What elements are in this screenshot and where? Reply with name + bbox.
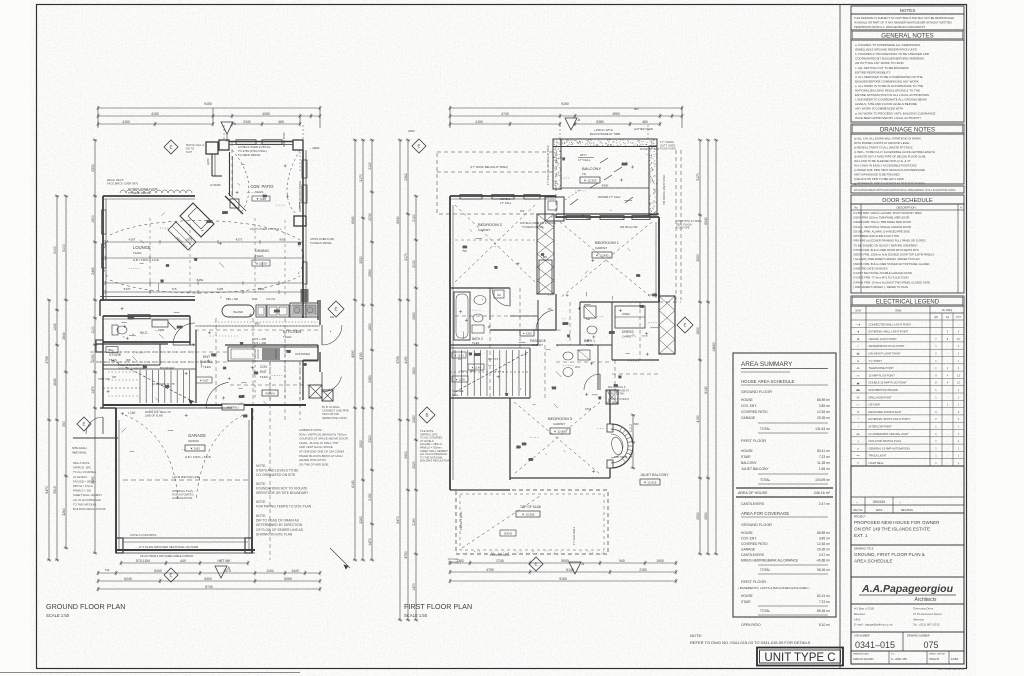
- svg-text:8740: 8740: [205, 585, 213, 589]
- electrical legend: [851, 296, 964, 466]
- svg-text:D7/D10 FRM. 813mm MER DOOR: D7/D10 FRM. 813mm MER DOOR WITH SEATS MT…: [854, 248, 919, 252]
- svg-text:4390: 4390: [351, 350, 355, 358]
- svg-text:◔: ◔: [857, 425, 859, 429]
- svg-text:2120: 2120: [412, 214, 416, 222]
- svg-text:GARAGE: GARAGE: [741, 548, 756, 552]
- clutter marks first floor: [459, 154, 658, 472]
- svg-text:BALUSTRADE AT TIMB.: BALUSTRADE AT TIMB.: [590, 132, 621, 136]
- svg-text:FLOW OVER: FLOW OVER: [660, 147, 676, 151]
- svg-text:CANTILEVERS: CANTILEVERS: [741, 553, 765, 557]
- svg-text:83.41 m²: 83.41 m²: [817, 449, 831, 453]
- svg-text:W 10.00: W 10.00: [255, 262, 267, 266]
- svg-text:TOT: TOT: [956, 316, 961, 319]
- svg-text:DBL + 6M: DBL + 6M: [226, 297, 239, 301]
- svg-text:Tel : (011) 867-2015: Tel : (011) 867-2015: [913, 623, 940, 627]
- kitchen island counter: [222, 305, 254, 317]
- svg-text:REFER TO DWG NO. 0341-015-03 T: REFER TO DWG NO. 0341-015-03 TO 0341-015…: [690, 640, 811, 645]
- general notes body: [851, 40, 964, 122]
- svg-text:HBT WK: HBT WK: [217, 559, 231, 563]
- svg-text:DRAINAGE NOTES: DRAINAGE NOTES: [880, 127, 935, 134]
- bottom row: [888, 651, 890, 664]
- svg-text:2330: 2330: [91, 164, 95, 172]
- svg-text:HOUSE: HOUSE: [741, 531, 754, 535]
- svg-text:1090: 1090: [91, 354, 95, 362]
- hall linen: [615, 306, 645, 328]
- svg-text:6240: 6240: [124, 577, 132, 581]
- svg-text:4740: 4740: [501, 112, 509, 116]
- right small rooms + door: [317, 345, 319, 360]
- svg-text:1470: 1470: [91, 386, 95, 394]
- svg-text:14660: 14660: [712, 342, 716, 352]
- svg-text:CARPET: CARPET: [595, 246, 607, 250]
- svg-text:940: 940: [619, 559, 625, 563]
- open slab dashed region: [456, 490, 608, 554]
- svg-text:LINTELS OVER BRKS: LINTELS OVER BRKS: [130, 533, 157, 537]
- svg-text:FACE BRICK OVER 9970: FACE BRICK OVER 9970: [107, 181, 139, 185]
- svg-text:SH: SH: [497, 293, 501, 297]
- svg-text:DOUBLE 15 AMP PLUG POINT: DOUBLE 15 AMP PLUG POINT: [869, 381, 908, 385]
- svg-text:1st: 1st: [946, 316, 950, 319]
- hatched pier near juliet: [606, 390, 618, 404]
- svg-text:1215: 1215: [622, 163, 628, 166]
- hatched threshold: [309, 385, 322, 398]
- drawing number row: [902, 632, 904, 651]
- svg-text:# 5 Bay v.1318: # 5 Bay v.1318: [854, 607, 874, 611]
- svg-text:4WD WALL: 4WD WALL: [72, 451, 87, 455]
- door from hall to wc zone: [173, 344, 195, 346]
- svg-text:GUTTER OVER: GUTTER OVER: [634, 127, 653, 131]
- first floor plan: [408, 102, 702, 490]
- svg-text:UNITS OVER # 2745 R.L.: UNITS OVER # 2745 R.L.: [250, 227, 283, 231]
- svg-text:G. +2661 350: G. +2661 350: [891, 657, 907, 661]
- svg-text:1900: 1900: [91, 215, 95, 223]
- svg-text:6540: 6540: [704, 217, 708, 225]
- svg-text:1382: 1382: [456, 559, 464, 563]
- svg-text:⦿: ⦿: [857, 395, 860, 399]
- svg-text:DG: DG: [143, 366, 147, 369]
- svg-text:1900: 1900: [656, 559, 664, 563]
- svg-text:SUN-D: SUN-D: [504, 532, 512, 536]
- svg-text:MONTHLY: MONTHLY: [227, 407, 239, 410]
- svg-text:TO DECK DETAIL: TO DECK DETAIL: [238, 153, 261, 157]
- svg-text:745: 745: [211, 354, 216, 357]
- svg-text:4150: 4150: [475, 120, 483, 124]
- svg-text:No: No: [854, 206, 858, 210]
- svg-text:FOUNDATIONS NOT TO VIOLATE: FOUNDATIONS NOT TO VIOLATE: [256, 487, 308, 491]
- svg-text:TILES: TILES: [260, 375, 268, 379]
- svg-text:P.C.: P.C.: [891, 654, 895, 656]
- svg-text:5470: 5470: [396, 516, 400, 524]
- stairs first floor: [450, 347, 530, 349]
- svg-text:DRILL/HOB POINT: DRILL/HOB POINT: [869, 395, 893, 399]
- svg-text:APPROX. DPC: APPROX. DPC: [73, 466, 91, 470]
- svg-text:600: 600: [634, 422, 639, 426]
- svg-text:JULIET BALCONY: JULIET BALCONY: [640, 473, 669, 477]
- svg-text:g. NO WORK TO PROCEED UNTIL BU: g. NO WORK TO PROCEED UNTIL BUILDING CLE…: [855, 111, 935, 115]
- wc room: [103, 315, 190, 317]
- svg-text:A.A.Papageorgiou: A.A.Papageorgiou: [861, 583, 954, 595]
- svg-text:d. ALL SERVICES TO BE COORDINA: d. ALL SERVICES TO BE COORDINATED ON THE: [855, 75, 923, 79]
- svg-text:TOTAL: TOTAL: [760, 609, 770, 613]
- svg-text:745: 745: [286, 351, 291, 354]
- garage door dashes: [125, 415, 178, 500]
- svg-text:ADM AS SHOWN: ADM AS SHOWN: [853, 657, 874, 661]
- GENERAL NOTES header: [851, 30, 964, 40]
- right dimension chains: [354, 140, 356, 560]
- svg-text:745 OVERFLOW AT SPEC: 745 OVERFLOW AT SPEC: [663, 175, 666, 205]
- svg-text:2930: 2930: [696, 512, 700, 520]
- svg-text:BEDROOM 1: BEDROOM 1: [595, 240, 620, 245]
- svg-text:TILES: TILES: [472, 341, 479, 345]
- svg-text:GENERAL 15 AMP AUTOMATION: GENERAL 15 AMP AUTOMATION: [869, 446, 910, 450]
- svg-text:16 RISERS @ 175: 16 RISERS @ 175: [152, 382, 175, 386]
- svg-text:2360: 2360: [412, 415, 416, 423]
- svg-text:UP: UP: [112, 375, 116, 379]
- svg-text:COORDINATED BY BUILDER BEFORE: COORDINATED BY BUILDER BEFORE ORDERING: [855, 57, 925, 61]
- svg-text:1215: 1215: [475, 353, 481, 356]
- svg-text:TO DECK DETAIL: TO DECK DETAIL: [128, 191, 151, 195]
- svg-text:D5 DBL./FRM. ALUMIN. D-HING: D5 DBL./FRM. ALUMIN. D-HINGED PRE SIDE: [854, 229, 911, 233]
- svg-text:2520: 2520: [412, 461, 416, 469]
- svg-text:—●: —●: [856, 322, 861, 326]
- svg-text:TILES: TILES: [133, 251, 141, 255]
- ceiling dashes: [110, 221, 300, 240]
- svg-text:2930: 2930: [704, 512, 708, 520]
- svg-text:TOTAL: TOTAL: [760, 427, 770, 431]
- svg-text:GR: GR: [934, 316, 938, 319]
- svg-text:1830: 1830: [368, 323, 372, 331]
- svg-text:CONNECT LINE PIPE: CONNECT LINE PIPE: [322, 409, 349, 413]
- svg-text:EXT. 1: EXT. 1: [854, 533, 868, 538]
- svg-text:2030: 2030: [274, 310, 280, 313]
- svg-text:2030: 2030: [222, 212, 228, 215]
- svg-text:3530: 3530: [696, 254, 700, 262]
- svg-text:1440: 1440: [291, 569, 299, 573]
- svg-text:• 140: • 140: [128, 411, 136, 415]
- svg-text:5100: 5100: [53, 246, 57, 254]
- svg-text:2362: 2362: [404, 173, 408, 181]
- svg-text:PASSAGE: PASSAGE: [530, 339, 547, 343]
- svg-text:2030 1170 JAMB 860: 2030 1170 JAMB 860: [118, 366, 143, 370]
- svg-text:← 17°L PLAIN GROOVED SECTIO: ← 17°L PLAIN GROOVED SECTIONAL O/H G/DR: [135, 545, 198, 549]
- svg-text:TO DECK DETAIL: TO DECK DETAIL: [310, 241, 332, 245]
- svg-text:SITE HIGH: SITE HIGH: [72, 446, 86, 450]
- svg-text:3170: 3170: [359, 174, 363, 182]
- svg-text:H.B = 13971 + 8 A.B.: H.B = 13971 + 8 A.B.: [185, 455, 212, 459]
- svg-text:EXTERNAL WALL LIGHT POINT: EXTERNAL WALL LIGHT POINT: [869, 330, 909, 334]
- svg-text:D-FAST SECTIONAL DOUBLE GA: D-FAST SECTIONAL DOUBLE GARAGE DOOR: [854, 271, 912, 275]
- garage bottom door line: [123, 537, 248, 539]
- svg-text:460: 460: [642, 120, 648, 124]
- svg-text:DG: DG: [330, 315, 334, 319]
- svg-text:17° FALL: 17° FALL: [500, 201, 512, 205]
- svg-text:▼ 9.87: ▼ 9.87: [200, 379, 209, 383]
- svg-text:1.56 m²: 1.56 m²: [819, 467, 831, 471]
- roof overhang dashed left of balcony: [437, 152, 556, 214]
- svg-text:MINUS HERRINGBANK ALLOWANCE: MINUS HERRINGBANK ALLOWANCE: [741, 559, 799, 563]
- svg-text:2190: 2190: [639, 568, 647, 572]
- internal dim line y242: [105, 241, 303, 243]
- svg-text:131.63 m²: 131.63 m²: [815, 427, 831, 431]
- svg-text:E: E: [169, 145, 172, 150]
- svg-text:BUILDING REGULATIONS: BUILDING REGULATIONS: [73, 507, 106, 511]
- unit type c box: [757, 648, 843, 666]
- svg-text:GARAGE DOOR: GARAGE DOOR: [172, 496, 192, 500]
- svg-text:D-PACK FRM. 15.4mm ALUSHUT: D-PACK FRM. 15.4mm ALUSHUT TWO PANEL GLA…: [854, 280, 931, 284]
- svg-text:246.16 m²: 246.16 m²: [814, 491, 831, 495]
- svg-text:11.28 m²: 11.28 m²: [817, 461, 831, 465]
- landing labels: [452, 352, 466, 358]
- balcony: [553, 139, 657, 147]
- svg-text:NATIONAL BUILDING REGULATIONS: NATIONAL BUILDING REGULATIONS & TO THE: [855, 89, 920, 93]
- svg-text:SPARE PIPE CONN.: SPARE PIPE CONN.: [322, 416, 347, 420]
- svg-text:Bloubert: Bloubert: [854, 612, 865, 616]
- svg-text:15 AMP PLUG POINT: 15 AMP PLUG POINT: [869, 373, 896, 377]
- svg-text:[ GLAZED ] PARLIAMENT HINGES: [ GLAZED ] PARLIAMENT HINGES ] REFER TO …: [854, 257, 920, 261]
- svg-text:AT LEVELS: AT LEVELS: [73, 475, 87, 479]
- svg-text:SIGN ON TAP: SIGN ON TAP: [322, 412, 339, 416]
- svg-text:CARPET: CARPET: [532, 343, 543, 347]
- svg-text:SH: SH: [586, 317, 590, 321]
- svg-text:HOUSE: HOUSE: [741, 449, 754, 453]
- svg-text:RECESSED DOWN LIGHT: RECESSED DOWN LIGHT: [869, 410, 902, 414]
- svg-text:ON THE OTHER SIDE.: ON THE OTHER SIDE.: [299, 462, 329, 466]
- svg-text:2160: 2160: [158, 328, 165, 332]
- svg-text:AREA SCHEDULE: AREA SCHEDULE: [854, 558, 893, 563]
- svg-text:2640: 2640: [53, 378, 57, 386]
- svg-text:TO ALL COURSES: TO ALL COURSES: [73, 470, 96, 474]
- svg-text:8450: 8450: [197, 278, 204, 282]
- svg-text:GRANO: GRANO: [188, 439, 200, 443]
- svg-text:3.85 m²: 3.85 m²: [819, 404, 831, 408]
- right hatched pier: [659, 296, 675, 354]
- svg-text:860: 860: [165, 385, 170, 388]
- svg-text:▼ 11.95: ▼ 11.95: [455, 379, 465, 382]
- svg-text:(17° ROOF BELOW AT SPEC): (17° ROOF BELOW AT SPEC): [470, 165, 508, 169]
- svg-text:7150 745: 7150 745: [98, 377, 110, 381]
- svg-text:1215: 1215: [239, 395, 245, 398]
- svg-text:DRESS: DRESS: [622, 330, 634, 334]
- svg-text:3530: 3530: [359, 256, 363, 264]
- svg-text:SUIT: SUIT: [186, 150, 192, 154]
- svg-text:ANTI-SIPHONAGE IS BE FINISH: ANTI-SIPHONAGE IS BE FINISHED: [854, 173, 900, 177]
- svg-text:NOTE:: NOTE:: [256, 514, 266, 518]
- svg-text:TOP SPLIT: TOP SPLIT: [614, 455, 628, 459]
- svg-text:ENTIRE SATISFACTION OF ALL LOC: ENTIRE SATISFACTION OF ALL LOCAL AUTHORI…: [855, 93, 929, 97]
- svg-text:4530: 4530: [602, 184, 609, 188]
- marker E lounge top: [164, 140, 178, 154]
- svg-text:STAIR: STAIR: [741, 455, 751, 459]
- lounge south wall: [100, 299, 195, 301]
- svg-text:2560: 2560: [368, 269, 372, 277]
- svg-text:D2/D4 FRM. 813mm TMB PANEL: D2/D4 FRM. 813mm TMB PANEL MER DOOR: [854, 216, 910, 220]
- svg-text:B: B: [425, 413, 428, 418]
- svg-text:745: 745: [640, 305, 645, 308]
- svg-text:COV. ENT.: COV. ENT.: [741, 537, 757, 541]
- svg-text:PANELS = 300: PANELS = 300: [73, 489, 91, 493]
- svg-text:12.54 m²: 12.54 m²: [817, 410, 831, 414]
- svg-text:CO-ORDINATED ON SITE.: CO-ORDINATED ON SITE.: [256, 473, 296, 477]
- svg-text:b. FINISHES & THICKNESSING TO: b. FINISHES & THICKNESSING TO BE CHECKED…: [855, 52, 929, 56]
- svg-text:4190: 4190: [359, 352, 363, 360]
- svg-text:1470: 1470: [368, 538, 372, 546]
- store room: [96, 343, 168, 345]
- svg-text:NOTE:: NOTE:: [256, 500, 266, 504]
- svg-text:715: 715: [171, 287, 176, 291]
- svg-text:ANY WORK IS COMMENCED WITH: ANY WORK IS COMMENCED WITH: [855, 107, 903, 111]
- svg-text:5170: 5170: [124, 287, 131, 291]
- svg-text:GARAGE: GARAGE: [741, 416, 756, 420]
- svg-text:2190: 2190: [412, 518, 416, 526]
- bottom dim chains ground: [121, 562, 248, 564]
- svg-text:NOTES: NOTES: [900, 8, 916, 13]
- svg-text:5400: 5400: [204, 577, 212, 581]
- svg-text:89.26 m²: 89.26 m²: [817, 609, 831, 613]
- cov patio walls: [219, 140, 229, 150]
- bath1 + dress: [580, 301, 659, 303]
- svg-text:FA/BA: FA/BA: [951, 657, 959, 661]
- svg-text:6540: 6540: [351, 216, 355, 224]
- svg-text:c) 50Ø + TO BE FULLY ACCESSIBL: c) 50Ø + TO BE FULLY ACCESSIBLE ALONG EN…: [854, 150, 935, 154]
- svg-text:COV. PATIO: COV. PATIO: [251, 184, 275, 189]
- svg-text:LAY-B 2ND FLR LINE: LAY-B 2ND FLR LINE: [172, 475, 199, 479]
- svg-text:DRAWN/SCALE: DRAWN/SCALE: [853, 653, 870, 656]
- svg-text:Architects: Architects: [914, 597, 937, 603]
- svg-text:EXTERNAL SPOTS LIGHT POINT: EXTERNAL SPOTS LIGHT POINT: [869, 417, 911, 421]
- left outer wall lower: [99, 300, 101, 316]
- column spine lines: [839, 5, 841, 669]
- first floor lower half: [396, 139, 718, 622]
- drainage notes body: [851, 134, 964, 184]
- svg-text:2520: 2520: [368, 435, 372, 443]
- svg-text:D/W: D/W: [252, 297, 258, 301]
- svg-text:29.35 m²: 29.35 m²: [817, 416, 831, 420]
- svg-text:650: 650: [255, 322, 260, 326]
- svg-text:FIRST FLOOR PLAN: FIRST FLOOR PLAN: [404, 602, 472, 611]
- svg-text:D9/D61 FRM. 813mm MER STAK: D9/D61 FRM. 813mm MER STAKED GR TOP PANE…: [854, 262, 930, 266]
- svg-text:1215: 1215: [609, 332, 615, 335]
- svg-text:BEL: BEL: [109, 348, 114, 352]
- svg-text:STAIR: STAIR: [741, 600, 751, 604]
- svg-text:29.35 m²: 29.35 m²: [817, 548, 831, 552]
- svg-text:D6/TIMBER HOR-SLIDE-FOLD TY: D6/TIMBER HOR-SLIDE-FOLD TYPE: [854, 234, 900, 238]
- svg-text:2560: 2560: [412, 312, 416, 320]
- DOOR SCHEDULE: [851, 195, 964, 204]
- svg-text:Glenvista Drive: Glenvista Drive: [913, 607, 934, 611]
- long dashed leader lines first: [489, 288, 491, 400]
- svg-text:f) RE-ROUTE PIPE TO BELOW: f) RE-ROUTE PIPE TO BELOW 2 GRID: [854, 177, 904, 181]
- svg-text:TO BE SANDED ON QUALITY BEFORE: TO BE SANDED ON QUALITY BEFORE ORDERING: [854, 243, 918, 247]
- svg-text:ISLAND: ISLAND: [233, 310, 243, 314]
- svg-text:◄: ◄: [857, 330, 860, 334]
- svg-text:TRACK LIGHT: TRACK LIGHT: [869, 454, 887, 458]
- svg-text:3.85 m²: 3.85 m²: [819, 537, 831, 541]
- svg-text:5400: 5400: [154, 569, 162, 573]
- svg-text:LINE OF SLAB: LINE OF SLAB: [145, 414, 163, 418]
- svg-text:4197: 4197: [129, 238, 136, 242]
- svg-text:12.54 m²: 12.54 m²: [817, 542, 831, 546]
- svg-text:7.23 m²: 7.23 m²: [819, 600, 831, 604]
- svg-text:ALL IN ACCORDANCE: ALL IN ACCORDANCE: [73, 498, 101, 502]
- svg-text:FLUORESCENT CEILING LIGHT: FLUORESCENT CEILING LIGHT: [869, 432, 909, 436]
- svg-text:-○-: -○-: [856, 403, 860, 407]
- svg-text:SHEET 1FROM: SHEET 1FROM: [929, 654, 945, 656]
- svg-text:ON ERF 149 THE ISLANDS ESTATE: ON ERF 149 THE ISLANDS ESTATE: [854, 526, 930, 531]
- svg-text:1145: 1145: [217, 287, 224, 291]
- long dashed leader lines ground: [252, 318, 254, 420]
- kitchen door arc right: [321, 325, 323, 345]
- svg-text:INCL AND TO BE SLEEVED WITH: INCL AND TO BE SLEEVED WITH C.E. & VT: [854, 159, 911, 163]
- svg-text:CARPET: CARPET: [622, 335, 633, 339]
- svg-text:COUNTER: COUNTER: [295, 352, 311, 356]
- svg-text:◛: ◛: [857, 381, 860, 385]
- svg-text:5900: 5900: [561, 559, 569, 563]
- svg-text:TILES: TILES: [255, 254, 263, 258]
- svg-text:17° FALL WALL: 17° FALL WALL: [572, 526, 576, 545]
- svg-text:2740: 2740: [496, 559, 504, 563]
- svg-text:BALCONY: BALCONY: [582, 166, 601, 171]
- svg-text:( BASEMENTS, LOFTS & BALCONIES: ( BASEMENTS, LOFTS & BALCONIES EXCLUDED …: [738, 586, 810, 590]
- svg-text:3795: 3795: [45, 356, 49, 364]
- svg-text:f. ENGINEER TO COORDINATE ALL: f. ENGINEER TO COORDINATE ALL GROUND BEA…: [855, 98, 927, 102]
- svg-text:B.I.B. IR WALL: B.I.B. IR WALL: [322, 405, 340, 409]
- svg-text:D8/D60 FRM. 1200mm ALM DOU: D8/D60 FRM. 1200mm ALM DOUBLE DOOR TOP &…: [854, 253, 935, 257]
- svg-text:DG: DG: [614, 385, 618, 388]
- svg-text:▼ 1260: ▼ 1260: [522, 332, 532, 336]
- svg-text:ENTIRE RESPONSIBILITY: ENTIRE RESPONSIBILITY: [855, 70, 891, 74]
- svg-text:2.47 m²: 2.47 m²: [819, 553, 831, 557]
- svg-text:Alberton: Alberton: [913, 617, 925, 621]
- svg-text:EXCAVATED AREAS WITHIN EXCAVAT: EXCAVATED AREAS WITHIN EXCAVATION SHALL …: [854, 189, 956, 192]
- svg-text:540: 540: [463, 246, 468, 249]
- svg-text:COVERED PATIO: COVERED PATIO: [741, 410, 768, 414]
- svg-text:745: 745: [254, 372, 259, 375]
- svg-text:6140: 6140: [351, 480, 355, 488]
- revision strip: [851, 496, 964, 498]
- svg-text:c. ALL SETTING OUT TO BE BUILD: c. ALL SETTING OUT TO BE BUILDERS: [855, 66, 909, 70]
- svg-text:REG.A NOTE: REG.A NOTE: [73, 461, 90, 465]
- svg-text:2030: 2030: [563, 322, 569, 325]
- svg-text:5060: 5060: [284, 577, 292, 581]
- svg-text:COPYRIGHT/DATE 15: COPYRIGHT/DATE 15: [938, 667, 965, 671]
- svg-text:4150: 4150: [122, 120, 130, 124]
- svg-text:BATH 2: BATH 2: [472, 337, 483, 341]
- svg-text:SYM: SYM: [855, 308, 861, 312]
- svg-text:e) INNER SOIL PIPE VENT DES: e) INNER SOIL PIPE VENT DESIGN FLOW PRES…: [854, 168, 925, 172]
- svg-text:BUILDING REGULATIONS: BUILDING REGULATIONS: [420, 459, 452, 463]
- svg-text:No. REQ: No. REQ: [942, 308, 952, 312]
- ground middle band: [96, 215, 344, 418]
- svg-text:⁂: ⁂: [857, 366, 860, 370]
- svg-text:540: 540: [522, 443, 527, 446]
- svg-text:4-0: 4-0: [629, 452, 633, 457]
- svg-text:3170: 3170: [696, 173, 700, 181]
- NOTES header: [851, 6, 964, 14]
- svg-text:d) WASTE NOT A PVES PIPE OF: d) WASTE NOT A PVES PIPE OF BELOW FLOOR …: [854, 155, 925, 159]
- svg-text:TIL: TIL: [582, 172, 587, 176]
- svg-text:GROUND FLOOR: GROUND FLOOR: [741, 523, 772, 527]
- svg-text:W.C.: W.C.: [575, 365, 581, 369]
- svg-text:85.89 m²: 85.89 m²: [817, 531, 831, 535]
- svg-text:BEDROOM 2: BEDROOM 2: [478, 222, 503, 227]
- svg-text:SCALE 1:50: SCALE 1:50: [46, 613, 70, 618]
- svg-text:SHEET WALL CEMENT: SHEET WALL CEMENT: [73, 493, 102, 497]
- counter along kitchen south: [225, 344, 318, 346]
- svg-text:PROJECT: PROJECT: [854, 516, 866, 519]
- svg-text:▪: ▪: [858, 344, 859, 348]
- svg-text:2360: 2360: [368, 375, 372, 383]
- svg-text:▼ 12.925: ▼ 12.925: [584, 179, 597, 183]
